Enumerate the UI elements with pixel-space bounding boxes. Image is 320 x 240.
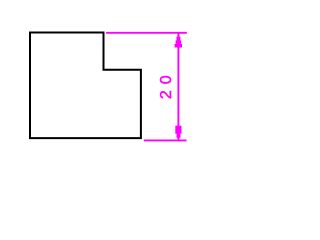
svg-text:20: 20 bbox=[158, 69, 175, 99]
dimension line bbox=[177, 33, 179, 140]
part outline (L-shaped plate) bbox=[30, 33, 141, 139]
extension line bottom bbox=[144, 139, 187, 141]
extension line top bbox=[106, 32, 187, 34]
arrowhead up bbox=[175, 33, 182, 47]
arrowhead down bbox=[175, 126, 181, 141]
